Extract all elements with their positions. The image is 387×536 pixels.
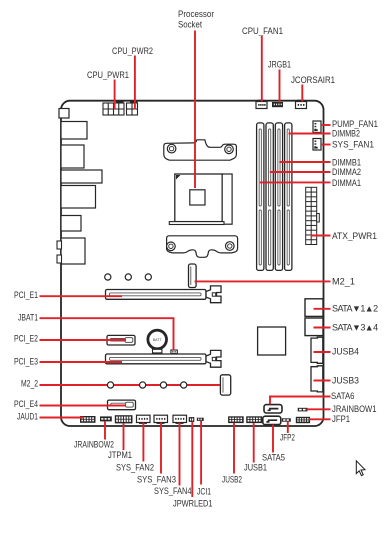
svg-text:SATA▼3▲4: SATA▼3▲4 bbox=[332, 323, 378, 333]
svg-text:JPWRLED1: JPWRLED1 bbox=[173, 498, 213, 508]
svg-text:M2_2: M2_2 bbox=[21, 379, 38, 389]
svg-text:SATA5: SATA5 bbox=[262, 452, 285, 462]
svg-text:CPU_PWR2: CPU_PWR2 bbox=[112, 46, 153, 56]
svg-text:SYS_FAN3: SYS_FAN3 bbox=[137, 474, 176, 484]
svg-text:JFP1: JFP1 bbox=[332, 414, 350, 424]
svg-text:BATT: BATT bbox=[153, 338, 161, 342]
svg-text:JTPM1: JTPM1 bbox=[108, 450, 132, 460]
svg-text:ATX_PWR1: ATX_PWR1 bbox=[332, 231, 377, 241]
svg-text:JCI1: JCI1 bbox=[197, 487, 211, 497]
svg-text:PCI_E2: PCI_E2 bbox=[14, 334, 38, 344]
svg-text:JUSB2: JUSB2 bbox=[222, 474, 242, 484]
svg-text:SYS_FAN4: SYS_FAN4 bbox=[154, 486, 192, 496]
svg-text:SYS_FAN2: SYS_FAN2 bbox=[116, 462, 154, 472]
svg-text:JRGB1: JRGB1 bbox=[268, 60, 291, 70]
svg-text:JCORSAIR1: JCORSAIR1 bbox=[291, 75, 335, 85]
svg-text:CPU_PWR1: CPU_PWR1 bbox=[87, 70, 129, 80]
svg-text:Processor: Processor bbox=[178, 9, 214, 19]
svg-text:JRAINBOW2: JRAINBOW2 bbox=[74, 439, 114, 449]
svg-text:SATA▼1▲2: SATA▼1▲2 bbox=[332, 303, 378, 313]
svg-text:JFP2: JFP2 bbox=[280, 432, 295, 442]
svg-text:DIMMB2: DIMMB2 bbox=[332, 128, 360, 138]
svg-text:M2_1: M2_1 bbox=[332, 277, 355, 287]
svg-text:JAUD1: JAUD1 bbox=[17, 412, 38, 422]
svg-text:JRAINBOW1: JRAINBOW1 bbox=[332, 404, 377, 414]
svg-text:PCI_E4: PCI_E4 bbox=[14, 399, 38, 409]
svg-text:DIMMA2: DIMMA2 bbox=[332, 167, 361, 177]
svg-text:PCI_E1: PCI_E1 bbox=[14, 290, 38, 300]
svg-text:SYS_FAN1: SYS_FAN1 bbox=[332, 139, 374, 149]
svg-text:SATA6: SATA6 bbox=[331, 391, 355, 401]
svg-text:JUSB4: JUSB4 bbox=[332, 347, 359, 357]
svg-text:CPU_FAN1: CPU_FAN1 bbox=[242, 26, 283, 36]
svg-text:DIMMB1: DIMMB1 bbox=[332, 157, 361, 167]
svg-text:JUSB1: JUSB1 bbox=[244, 463, 267, 473]
svg-text:PCI_E3: PCI_E3 bbox=[14, 357, 38, 367]
svg-text:JUSB3: JUSB3 bbox=[332, 375, 359, 385]
svg-text:DIMMA1: DIMMA1 bbox=[332, 178, 361, 188]
svg-text:JBAT1: JBAT1 bbox=[18, 312, 38, 322]
svg-text:Socket: Socket bbox=[178, 20, 202, 30]
